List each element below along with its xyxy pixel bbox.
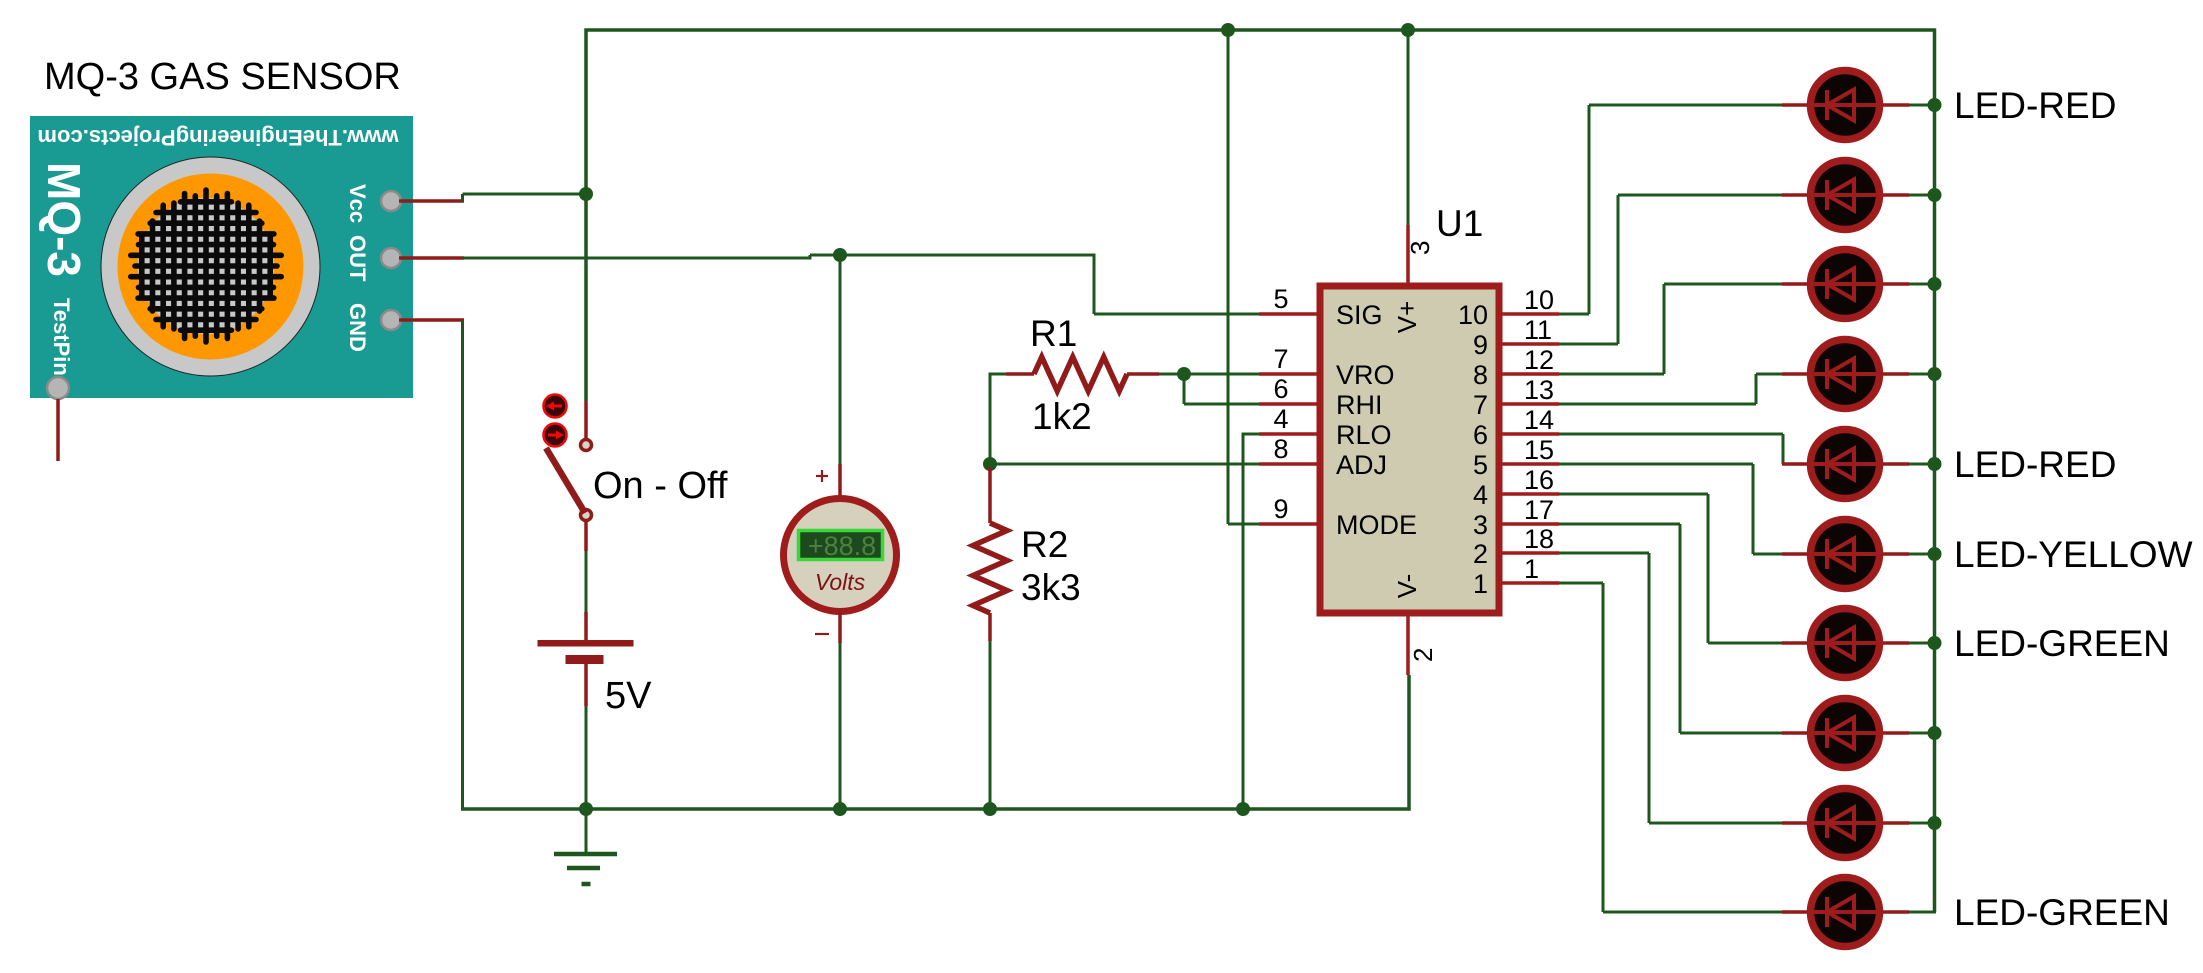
svg-text:15: 15 — [1524, 435, 1554, 465]
wire LED D10 anode lead — [1883, 910, 1909, 914]
svg-text:1: 1 — [1524, 554, 1539, 584]
svg-text:R2: R2 — [1021, 524, 1068, 565]
svg-text:18: 18 — [1524, 524, 1554, 554]
junction LED8/anode rail — [1928, 726, 1942, 740]
svg-text:9: 9 — [1473, 330, 1488, 360]
svg-text:+88.8: +88.8 — [808, 531, 876, 561]
junction R1/R2/ADJ — [983, 457, 997, 471]
wire LED D7 cathode lead — [1782, 641, 1807, 645]
svg-text:6: 6 — [1473, 420, 1488, 450]
wire LED D5 cathode lead — [1782, 462, 1807, 466]
wire ground bottom rail — [461, 807, 1411, 811]
svg-text:2: 2 — [1408, 648, 1438, 662]
junction OUT/voltmeter — [833, 248, 847, 262]
voltmeter + mark — [816, 475, 828, 477]
wire U1 right pin net 15 to LED6 — [1559, 463, 1753, 466]
LED D2 — [1807, 161, 1883, 230]
svg-text:TestPin: TestPin — [49, 298, 74, 376]
svg-text:11: 11 — [1524, 315, 1552, 345]
svg-text:1k2: 1k2 — [1032, 396, 1092, 437]
svg-text:RHI: RHI — [1336, 390, 1383, 420]
pin 2 stub (net 18) — [1500, 551, 1559, 555]
wire U1 right pin net 12 to LED3 — [1559, 373, 1664, 376]
pin 10 stub (net 10) — [1500, 312, 1559, 316]
junction R2/rail — [983, 802, 997, 816]
wire voltmeter + lead — [838, 464, 842, 500]
svg-text:10: 10 — [1458, 300, 1488, 330]
resistor R1 — [1034, 357, 1127, 391]
svg-text:1: 1 — [1473, 569, 1488, 599]
junction Vcc/switch — [579, 187, 593, 201]
wire switch to battery — [584, 521, 588, 551]
LED D3 — [1807, 250, 1883, 319]
wire LED D2 cathode lead — [1782, 193, 1807, 197]
wire Vcc to rail — [461, 194, 464, 203]
junction pin3/top rail — [1401, 23, 1415, 37]
svg-text:2: 2 — [1473, 539, 1488, 569]
svg-text:MQ-3 GAS SENSOR: MQ-3 GAS SENSOR — [44, 56, 401, 98]
wire U1 right pin net 13 to LED4 — [1559, 403, 1756, 406]
wire R2 bottom lead — [988, 613, 992, 641]
pin 4 stub (net 16) — [1500, 492, 1559, 496]
wire LED D4 cathode lead — [1782, 372, 1807, 376]
svg-text:V-: V- — [1392, 574, 1422, 599]
svg-text:3k3: 3k3 — [1021, 567, 1081, 608]
wire U1 right pin net 10 to LED1 — [1559, 313, 1589, 316]
LED D8 — [1807, 699, 1883, 768]
svg-text:5V: 5V — [605, 675, 652, 717]
wire VRO net — [1159, 373, 1260, 376]
svg-text:U1: U1 — [1436, 203, 1483, 244]
svg-text:5: 5 — [1273, 284, 1288, 314]
pin 3 stub V+ — [1406, 225, 1410, 287]
sensor U2 MQ-3 gas sensor module — [30, 116, 413, 399]
svg-text:Volts: Volts — [815, 569, 866, 595]
wire TestPin stub — [56, 399, 60, 461]
junction voltmeter/rail — [833, 802, 847, 816]
svg-text:8: 8 — [1473, 360, 1488, 390]
wire voltmeter + feed — [839, 255, 842, 464]
wire U1 right pin net 17 to LED8 — [1559, 523, 1680, 526]
wire LED D9 cathode lead — [1782, 821, 1807, 825]
pin 7 stub (net 13) — [1500, 402, 1559, 406]
svg-text:Vcc: Vcc — [345, 184, 370, 223]
junction LED3/anode rail — [1928, 277, 1942, 291]
svg-text:www.TheEngineeringProjects.com: www.TheEngineeringProjects.com — [37, 125, 399, 150]
wire RLO to ground — [1243, 433, 1260, 436]
pin ADJ stub — [1259, 462, 1318, 466]
svg-text:4: 4 — [1473, 480, 1488, 510]
resistor R2 — [973, 523, 1007, 613]
wire GND vertical — [461, 320, 464, 811]
wire OUT pin stub — [399, 256, 464, 260]
wire R1 left lead — [1006, 372, 1034, 376]
svg-text:On - Off: On - Off — [593, 465, 728, 507]
wire switch top lead — [584, 401, 588, 438]
pin 6 stub (net 14) — [1500, 432, 1559, 436]
wire voltmeter - lead — [838, 612, 842, 643]
svg-text:LED-YELLOW: LED-YELLOW — [1954, 534, 2193, 575]
LED D7 — [1807, 609, 1883, 678]
wire R2 bottom to rail — [989, 641, 992, 809]
svg-text:10: 10 — [1524, 285, 1554, 315]
svg-text:MQ-3: MQ-3 — [38, 162, 90, 277]
junction LED1/anode rail — [1928, 98, 1942, 112]
svg-text:R1: R1 — [1030, 313, 1077, 354]
svg-text:V+: V+ — [1392, 301, 1422, 334]
pin VRO stub — [1259, 372, 1318, 376]
svg-text:12: 12 — [1524, 345, 1554, 375]
wire LED D8 anode lead — [1883, 731, 1909, 735]
junction RLO/rail — [1236, 802, 1250, 816]
wire ADJ net — [990, 463, 1260, 466]
svg-text:8: 8 — [1273, 434, 1288, 464]
LED D5 — [1807, 430, 1883, 499]
svg-text:GND: GND — [345, 303, 370, 352]
junction LED4/anode rail — [1928, 367, 1942, 381]
svg-text:SIG: SIG — [1336, 300, 1383, 330]
svg-text:14: 14 — [1524, 405, 1554, 435]
wire VRO to RHI — [1183, 374, 1186, 404]
switch toggle arrow down — [544, 424, 567, 447]
wire U1 right pin net 1 to LED10 — [1559, 582, 1603, 585]
wire R1 left lead corner — [990, 373, 1006, 376]
wire U1 right pin net 16 to LED7 — [1559, 493, 1708, 496]
svg-text:13: 13 — [1524, 375, 1554, 405]
wire battery to rail — [585, 706, 588, 811]
wire LED D10 cathode lead — [1782, 910, 1807, 914]
junction LED7/anode rail — [1928, 636, 1942, 650]
wire LED D1 cathode lead — [1782, 103, 1807, 107]
svg-text:LED-RED: LED-RED — [1954, 444, 2116, 485]
svg-text:OUT: OUT — [345, 235, 370, 282]
wire GND pin stub — [399, 318, 464, 322]
wire LED D5 anode lead — [1883, 462, 1909, 466]
wire U1 pin3 to rail — [1407, 29, 1410, 226]
LED D10 — [1807, 878, 1883, 947]
svg-text:6: 6 — [1273, 374, 1288, 404]
svg-text:MODE: MODE — [1336, 510, 1417, 540]
svg-text:3: 3 — [1405, 241, 1435, 255]
pin 5 stub (net 15) — [1500, 462, 1559, 466]
voltmeter - mark — [815, 633, 829, 635]
pin MODE stub — [1259, 522, 1318, 526]
junction LED9/anode rail — [1928, 816, 1942, 830]
battery BAT1 5V — [538, 640, 634, 706]
svg-text:7: 7 — [1273, 344, 1288, 374]
wire voltmeter to rail — [839, 643, 842, 811]
wire OUT net — [463, 257, 811, 260]
svg-text:LED-GREEN: LED-GREEN — [1954, 623, 2170, 664]
wire LED D6 cathode lead — [1782, 552, 1807, 556]
pin 1 stub (net 1) — [1500, 581, 1559, 585]
LED D4 — [1807, 340, 1883, 409]
wire LED D1 anode lead — [1883, 103, 1909, 107]
pin 8 stub (net 12) — [1500, 372, 1559, 376]
wire V+ top rail — [585, 28, 1936, 32]
wire U1 right pin net 11 to LED2 — [1559, 343, 1618, 346]
switch SW1 On-Off — [546, 440, 592, 521]
wire U1 pin2 to rail — [1407, 675, 1411, 811]
wire U1 right pin net 18 to LED9 — [1559, 552, 1649, 555]
pin RHI stub — [1259, 402, 1318, 406]
pin RLO stub — [1259, 432, 1318, 436]
junction LED2/anode rail — [1928, 188, 1942, 202]
wire R1 right lead — [1127, 372, 1159, 376]
junction R1/VRO — [1177, 367, 1191, 381]
junction MODE/top rail — [1221, 23, 1235, 37]
pin SIG stub — [1259, 312, 1318, 316]
wire LED D2 anode lead — [1883, 193, 1909, 197]
svg-text:17: 17 — [1524, 495, 1554, 525]
svg-text:5: 5 — [1473, 450, 1488, 480]
wire LED anode rail — [1933, 29, 1937, 913]
wire switch feed vertical — [584, 29, 588, 402]
wire U1 right pin net 14 to LED5 — [1559, 433, 1783, 436]
junction LED6/anode rail — [1928, 547, 1942, 561]
switch toggle arrow up — [544, 395, 567, 418]
LED D6 — [1807, 520, 1883, 589]
svg-text:RLO: RLO — [1336, 420, 1392, 450]
svg-text:3: 3 — [1473, 510, 1488, 540]
wire LED D8 cathode lead — [1782, 731, 1807, 735]
svg-text:ADJ: ADJ — [1336, 450, 1387, 480]
wire LED D7 anode lead — [1883, 641, 1909, 645]
pin 2 stub V- — [1406, 613, 1410, 675]
pin 3 stub (net 17) — [1500, 522, 1559, 526]
wire Vcc pin stub — [399, 199, 464, 203]
svg-text:VRO: VRO — [1336, 360, 1395, 390]
LED D1 — [1807, 71, 1883, 140]
ground — [554, 810, 617, 884]
svg-text:4: 4 — [1273, 404, 1288, 434]
wire LED D3 anode lead — [1883, 282, 1909, 286]
svg-text:16: 16 — [1524, 465, 1554, 495]
svg-text:7: 7 — [1473, 390, 1488, 420]
junction LED5/anode rail — [1928, 457, 1942, 471]
pin 9 stub (net 11) — [1500, 342, 1559, 346]
wire R2 top lead — [988, 467, 992, 523]
svg-text:9: 9 — [1273, 494, 1288, 524]
voltmeter V1 — [784, 499, 897, 612]
wire MODE to V+ rail — [1227, 29, 1230, 525]
junction battery/rail — [579, 802, 593, 816]
wire LED D6 anode lead — [1883, 552, 1909, 556]
wire LED D9 anode lead — [1883, 821, 1909, 825]
op-amp U1 LM3914 body — [1320, 286, 1499, 613]
svg-text:LED-RED: LED-RED — [1954, 85, 2116, 126]
LED D9 — [1807, 789, 1883, 858]
wire LED D3 cathode lead — [1782, 282, 1807, 286]
svg-text:LED-GREEN: LED-GREEN — [1954, 892, 2170, 933]
wire LED D4 anode lead — [1883, 372, 1909, 376]
